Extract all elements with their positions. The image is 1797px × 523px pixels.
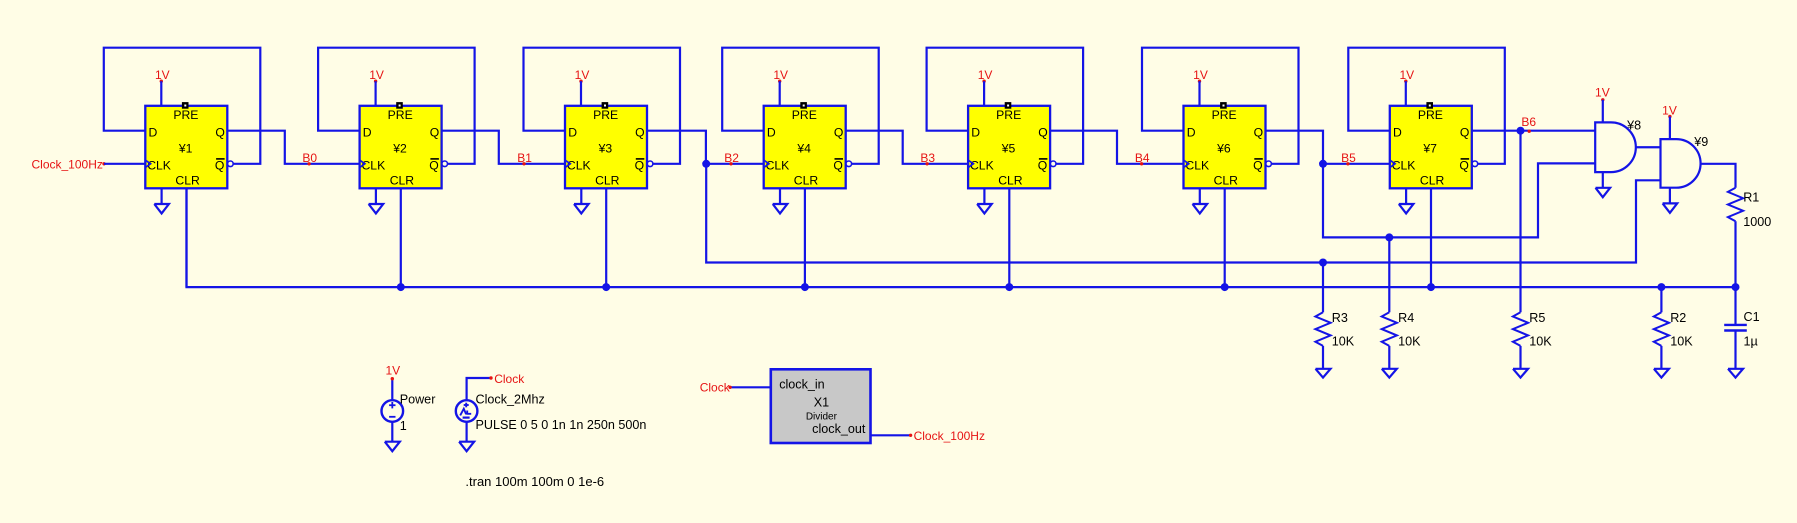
U2 PRE pin marker (396, 102, 403, 109)
AND gate U9 (¥9) (1661, 135, 1709, 188)
svg-text:Clock_100Hz: Clock_100Hz (914, 429, 985, 443)
net label Clock at source (489, 372, 525, 386)
junction U6 CLR on bus (1221, 283, 1229, 291)
flip-flop U1 body (¥1) (145, 106, 227, 189)
wire B5 drop to row (1323, 163, 1595, 237)
svg-text:Power: Power (400, 392, 436, 406)
ground at U3 (574, 188, 589, 213)
wire B2 drop to row (706, 164, 1660, 263)
svg-text:Divider: Divider (806, 411, 838, 422)
ground at U4 (773, 188, 788, 213)
svg-text:B6: B6 (1521, 115, 1536, 129)
flip-flop U3 body (¥3) (565, 106, 647, 189)
svg-text:Clock_100Hz: Clock_100Hz (32, 158, 103, 172)
svg-text:Q: Q (834, 126, 843, 140)
ground at R5 (1513, 369, 1528, 378)
resistor R1 (1000) (1728, 188, 1771, 287)
ground at U1 (154, 188, 169, 213)
svg-text:1V: 1V (1595, 86, 1610, 100)
U4 PRE pin marker (800, 102, 807, 109)
svg-text:CLR: CLR (1214, 174, 1239, 188)
U3 CLK pin wedge (565, 160, 571, 168)
svg-text:¥1: ¥1 (178, 142, 193, 156)
wire U7 Q to AND gate U8 (net B6) (1472, 130, 1595, 132)
svg-text:Q: Q (215, 158, 224, 172)
U2 Qbar bubble (442, 161, 448, 167)
svg-text:PRE: PRE (388, 108, 413, 122)
svg-text:D: D (149, 126, 158, 140)
net label B6 (1521, 115, 1536, 133)
svg-text:Q: Q (1459, 158, 1468, 172)
svg-text:1V: 1V (385, 364, 400, 378)
svg-text:10K: 10K (1529, 334, 1552, 348)
wire U4 Qbar-D feedback loop (722, 48, 879, 164)
svg-text:10K: 10K (1332, 334, 1355, 348)
U1 PRE pin marker (182, 102, 189, 109)
ground at R4 (1382, 369, 1397, 378)
ground at C1 (1728, 369, 1743, 378)
junction B5 node (1319, 160, 1327, 168)
svg-text:CLR: CLR (1420, 174, 1445, 188)
svg-text:¥4: ¥4 (796, 142, 811, 156)
svg-text:R1: R1 (1743, 191, 1759, 205)
svg-text:¥9: ¥9 (1693, 135, 1708, 149)
svg-text:¥5: ¥5 (1001, 142, 1016, 156)
wire U3 Qbar-D feedback loop (524, 48, 681, 164)
svg-text:D: D (363, 126, 372, 140)
wire U6 CLR to bus (1224, 188, 1226, 287)
wire U4 CLR to bus (804, 188, 806, 287)
junction U5 CLR on bus (1005, 283, 1013, 291)
svg-text:Clock_2Mhz: Clock_2Mhz (476, 392, 545, 406)
svg-text:Q: Q (1460, 126, 1469, 140)
svg-text:Q: Q (1038, 158, 1047, 172)
svg-text:R3: R3 (1332, 311, 1348, 325)
svg-text:Q: Q (429, 158, 438, 172)
svg-text:CLR: CLR (390, 174, 415, 188)
svg-text:R2: R2 (1670, 311, 1686, 325)
junction B2 node (702, 160, 710, 168)
svg-text:clock_in: clock_in (779, 378, 825, 392)
power flag 1V at U2 PRE (369, 68, 384, 106)
svg-text:¥2: ¥2 (392, 142, 407, 156)
wire U7 CLR to bus (1430, 188, 1432, 287)
U5 Qbar bubble (1050, 161, 1056, 167)
svg-text:PULSE 0 5 0 1n 1n 250n 500n: PULSE 0 5 0 1n 1n 250n 500n (476, 418, 647, 432)
U6 Qbar bubble (1266, 161, 1272, 167)
U4 Qbar bubble (846, 161, 852, 167)
svg-text:CLK: CLK (567, 158, 591, 172)
svg-text:D: D (1393, 126, 1402, 140)
junction R3 on B2 line (1319, 259, 1327, 267)
voltage source Clock_2Mhz (456, 378, 647, 442)
wire U9 output to R1 (1701, 164, 1736, 188)
net label B4 (1135, 151, 1150, 166)
wire U4 Q to next CLK (net B3) (846, 131, 968, 164)
ground at U8 (1596, 172, 1611, 197)
net label Clock at X1 input (700, 381, 732, 395)
U7 CLK pin wedge (1390, 160, 1396, 168)
svg-text:10K: 10K (1670, 334, 1693, 348)
net label B3 (920, 151, 935, 166)
junction U7 CLR on bus (1427, 283, 1435, 291)
voltage source Power (1V) (382, 379, 436, 442)
svg-text:R5: R5 (1529, 311, 1545, 325)
resistor R3 (10K) (1315, 263, 1354, 369)
wire U5 CLR to bus (1008, 188, 1010, 287)
wire U3 Q to next CLK (net B2) (647, 131, 764, 164)
resistor R4 (10K) (1382, 237, 1421, 368)
wire U1 Q to next CLK (net B0) (227, 131, 359, 164)
svg-text:CLK: CLK (362, 158, 386, 172)
svg-text:Q: Q (635, 158, 644, 172)
wire U6 Q to next CLK (net B5) (1266, 131, 1390, 164)
U6 PRE pin marker (1220, 102, 1227, 109)
wire Clock to X1 clock_in (730, 386, 771, 388)
svg-text:PRE: PRE (1212, 108, 1237, 122)
wire U2 Qbar-D feedback loop (318, 48, 475, 164)
flip-flop U4 body (¥4) (764, 106, 846, 189)
svg-text:10K: 10K (1398, 334, 1421, 348)
ground at U7 (1399, 188, 1414, 213)
svg-text:Clock: Clock (494, 372, 525, 386)
svg-text:R4: R4 (1398, 311, 1414, 325)
power flag 1V at U4 PRE (773, 68, 788, 106)
junction B6 node (1517, 127, 1525, 135)
svg-text:Q: Q (1254, 126, 1263, 140)
svg-text:PRE: PRE (593, 108, 618, 122)
svg-text:PRE: PRE (792, 108, 817, 122)
net label Clock_100Hz at U1 CLK (32, 158, 106, 172)
resistor R2 (10K) (1654, 287, 1693, 369)
junction R2 on bus (1657, 283, 1665, 291)
U5 CLK pin wedge (968, 160, 974, 168)
flip-flop U6 body (¥6) (1184, 106, 1266, 189)
power flag 1V at U8 (1595, 86, 1610, 123)
svg-text:1µ: 1µ (1744, 334, 1758, 348)
ground at U6 (1193, 188, 1208, 213)
svg-text:CLR: CLR (175, 174, 200, 188)
svg-text:X1: X1 (814, 395, 829, 409)
wire X1 clock_out to Clock_100Hz (871, 434, 911, 436)
wire U7 Qbar-D feedback loop (1348, 48, 1505, 164)
svg-text:D: D (1187, 126, 1196, 140)
wire B6 drop to R5 (1519, 131, 1521, 313)
junction R4 on B5 line (1385, 233, 1393, 241)
resistor R5 (10K) (1513, 311, 1552, 369)
ground at U5 (977, 188, 992, 213)
wire U1 CLR to bus (185, 188, 187, 287)
subcircuit X1 Divider box (771, 369, 871, 443)
net label B0 (302, 151, 317, 166)
junction U3 CLR on bus (602, 283, 610, 291)
svg-text:Q: Q (1253, 158, 1262, 172)
svg-text:D: D (971, 126, 980, 140)
ground at R3 (1316, 369, 1331, 378)
svg-text:CLK: CLK (147, 158, 171, 172)
U3 Qbar bubble (647, 161, 653, 167)
U7 PRE pin marker (1426, 102, 1433, 109)
junction U4 CLR on bus (801, 283, 809, 291)
net label B5 (1341, 151, 1356, 166)
flip-flop U2 body (¥2) (360, 106, 442, 189)
svg-text:¥7: ¥7 (1422, 142, 1437, 156)
wire U5 Qbar-D feedback loop (927, 48, 1084, 164)
svg-text:Q: Q (1038, 126, 1047, 140)
ground at U2 (369, 188, 384, 213)
power flag 1V at U3 PRE (575, 68, 590, 106)
power flag 1V at Power source (385, 364, 400, 381)
svg-text:C1: C1 (1744, 310, 1760, 324)
svg-text:PRE: PRE (996, 108, 1021, 122)
AND gate U8 (¥8) (1595, 118, 1641, 172)
power flag 1V at U1 PRE (155, 68, 170, 106)
power flag 1V at U6 PRE (1193, 68, 1208, 106)
ground at Power source (385, 442, 400, 452)
svg-text:D: D (568, 126, 577, 140)
U4 CLK pin wedge (764, 160, 770, 168)
svg-text:Q: Q (635, 126, 644, 140)
svg-text:PRE: PRE (1418, 108, 1443, 122)
ground at Clock_2Mhz source (459, 442, 474, 452)
flip-flop U5 body (¥5) (968, 106, 1050, 189)
U3 PRE pin marker (602, 102, 609, 109)
svg-text:Q: Q (215, 126, 224, 140)
svg-text:PRE: PRE (173, 108, 198, 122)
U1 CLK pin wedge (145, 160, 151, 168)
svg-text:CLR: CLR (595, 174, 620, 188)
svg-text:CLK: CLK (766, 158, 790, 172)
svg-text:CLR: CLR (998, 174, 1023, 188)
wire U8 output to U9 input (1636, 146, 1661, 148)
wire U5 Q to next CLK (net B4) (1050, 131, 1183, 164)
flip-flop U7 body (¥7) (1390, 106, 1472, 189)
wire U3 CLR to bus (605, 188, 607, 287)
U1 Qbar bubble (228, 161, 234, 167)
U7 Qbar bubble (1472, 161, 1478, 167)
U2 CLK pin wedge (359, 160, 365, 168)
power flag 1V at U7 PRE (1399, 68, 1414, 106)
wire U2 CLR to bus (400, 188, 402, 287)
svg-text:Q: Q (833, 158, 842, 172)
power flag 1V at U9 (1662, 104, 1677, 140)
net label B2 (724, 151, 739, 166)
svg-text:¥8: ¥8 (1626, 118, 1641, 132)
ground at U9 (1663, 188, 1678, 213)
ground at R2 (1654, 369, 1669, 378)
svg-text:CLK: CLK (1185, 158, 1209, 172)
svg-text:clock_out: clock_out (812, 422, 866, 436)
svg-text:D: D (767, 126, 776, 140)
net label B1 (517, 151, 532, 166)
svg-text:CLR: CLR (794, 174, 819, 188)
svg-text:CLK: CLK (1392, 158, 1416, 172)
junction C1 on bus (1732, 283, 1740, 291)
wire U6 Qbar-D feedback loop (1142, 48, 1299, 164)
svg-text:1000: 1000 (1743, 215, 1771, 229)
U5 PRE pin marker (1005, 102, 1012, 109)
wire U1 Qbar-D feedback loop (104, 48, 260, 164)
net label Clock_100Hz at X1 output (909, 429, 985, 443)
svg-text:Q: Q (430, 126, 439, 140)
capacitor C1 (1µ) (1724, 287, 1759, 369)
svg-text:1: 1 (400, 419, 407, 433)
svg-text:¥6: ¥6 (1216, 142, 1231, 156)
wire Clock_100Hz to U1 CLK (104, 163, 145, 165)
power flag 1V at U5 PRE (978, 68, 993, 106)
svg-text:Clock: Clock (700, 381, 731, 395)
svg-text:.tran 100m 100m 0 1e-6: .tran 100m 100m 0 1e-6 (465, 474, 604, 489)
simulation directive .tran (465, 474, 604, 489)
wire CLR bus (187, 188, 1736, 287)
wire U2 Q to next CLK (net B1) (442, 131, 565, 164)
svg-text:¥3: ¥3 (598, 142, 613, 156)
svg-text:CLK: CLK (970, 158, 994, 172)
U6 CLK pin wedge (1183, 160, 1189, 168)
junction U2 CLR on bus (397, 283, 405, 291)
